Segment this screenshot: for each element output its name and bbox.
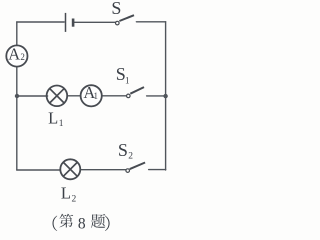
ammeter A1: [81, 85, 102, 106]
svg-text:1: 1: [59, 119, 64, 129]
wire middle branch: lamp L1 to ammeter A1: [67, 95, 80, 97]
svg-text:L: L: [61, 183, 71, 202]
label L1: [48, 109, 64, 129]
svg-text:2: 2: [72, 194, 77, 204]
svg-text:S: S: [118, 140, 128, 160]
wire top right (switch S to top-right corner): [136, 21, 165, 23]
node right (junction dot on right wire): [163, 94, 167, 98]
label S1: [116, 64, 130, 85]
lamp L1: [47, 86, 68, 107]
wire bottom: bottom-left corner to lamp L2: [17, 169, 60, 171]
node left (junction dot on left wire): [15, 94, 19, 98]
svg-text:L: L: [48, 109, 58, 128]
ammeter A2: [6, 45, 27, 66]
label A1: [83, 83, 98, 102]
lamp L2: [60, 159, 80, 179]
label L2: [61, 183, 77, 204]
wire middle branch: node to lamp L1: [17, 95, 48, 97]
wire left side lower (ammeter A2 to bottom-left corner): [16, 67, 18, 170]
wire top left (battery to top-left corner): [17, 21, 64, 23]
svg-text:S: S: [111, 0, 121, 18]
wire battery to switch S: [74, 21, 115, 23]
switch S1: [127, 87, 145, 98]
wire right side (top-right corner down to bottom-right corner): [165, 22, 167, 170]
wire left side upper (top-left corner to ammeter A2): [16, 22, 18, 45]
wire middle branch: switch S1 to right node: [147, 95, 166, 97]
wire middle branch: ammeter A1 to switch S1: [102, 95, 127, 97]
svg-text:2: 2: [20, 52, 25, 62]
svg-text:1: 1: [125, 75, 130, 85]
switch S2: [126, 163, 145, 173]
svg-text:1: 1: [94, 91, 99, 101]
wire bottom: switch S2 to bottom-right corner: [149, 169, 166, 171]
svg-text:2: 2: [128, 152, 133, 162]
battery cell (top): [66, 13, 74, 32]
caption (第 8 题): [53, 214, 110, 231]
wire bottom: lamp L2 to switch S2: [80, 169, 125, 171]
label S2: [118, 140, 133, 162]
label A2: [8, 44, 25, 63]
svg-text:A: A: [8, 44, 20, 63]
svg-text:8: 8: [78, 215, 86, 232]
switch S: [116, 15, 135, 25]
